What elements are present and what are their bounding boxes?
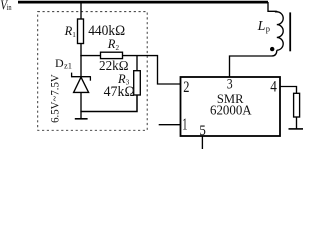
wire zener anode down xyxy=(80,92,82,119)
wire output resistor bottom lead xyxy=(296,117,298,129)
svg-text:47kΩ: 47kΩ xyxy=(104,84,135,100)
svg-text:3: 3 xyxy=(227,76,233,92)
resistor R1 xyxy=(78,19,84,44)
wire node to zener cathode xyxy=(80,55,82,77)
transformer core bar xyxy=(289,12,291,51)
wire R1 bottom to node xyxy=(80,44,82,57)
wire pin 1 stub xyxy=(159,124,181,126)
terminal bar bottom right xyxy=(289,128,304,130)
terminal bar below zener xyxy=(75,118,88,120)
wire R3 bottom to zener anode rail xyxy=(80,95,137,112)
resistor R3 xyxy=(134,71,141,95)
wire pin 4 to output resistor xyxy=(280,87,297,94)
svg-text:4: 4 xyxy=(270,79,277,96)
wire pin 3 to transformer primary xyxy=(230,50,277,77)
wire pin 5 stub xyxy=(201,136,203,149)
svg-text:in: in xyxy=(7,3,12,12)
wire R2 to IC pin 2 xyxy=(123,56,181,84)
wire node to R2 xyxy=(80,55,101,57)
wire top input rail xyxy=(18,1,268,4)
polarity dot xyxy=(270,47,274,51)
svg-text:1: 1 xyxy=(182,115,187,134)
resistor R4 output xyxy=(294,93,300,117)
wire R3 top lead xyxy=(136,56,138,71)
resistor R2 xyxy=(101,52,123,58)
svg-text:6.5V~7.5V: 6.5V~7.5V xyxy=(50,74,62,123)
dashed regulator box xyxy=(38,12,148,131)
inductor Lp primary winding xyxy=(268,2,283,50)
svg-text:440kΩ: 440kΩ xyxy=(88,23,125,39)
svg-text:62000A: 62000A xyxy=(210,104,252,119)
IC U1 SMR 62000A box xyxy=(181,77,281,136)
svg-text:2: 2 xyxy=(183,79,189,96)
zener diode Dz1 xyxy=(71,73,91,93)
wire R1 top lead xyxy=(80,2,82,20)
